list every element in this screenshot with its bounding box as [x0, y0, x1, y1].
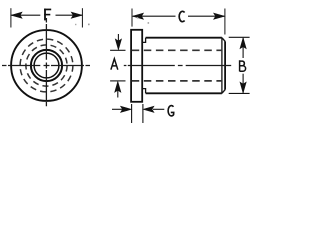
end face [224, 41, 226, 89]
body top edge [146, 37, 222, 39]
bore hidden line top [132, 49, 222, 51]
C extension line right [224, 9, 226, 35]
F arrow right [71, 12, 82, 18]
B extension line top [229, 36, 250, 38]
label F [44, 9, 51, 21]
F extension line right [81, 8, 83, 27]
centerline horizontal [2, 65, 90, 67]
hidden circle body OD [20, 39, 73, 92]
body bottom edge [146, 92, 222, 94]
A extension line top [110, 49, 125, 51]
label A [111, 59, 118, 70]
C arrow right [214, 13, 225, 19]
A arrow bottom (up) [117, 91, 119, 98]
scan specks [88, 24, 90, 26]
bore inner circle [34, 53, 59, 78]
F extension line left [10, 8, 12, 27]
side view centerline [124, 65, 231, 67]
flange rectangle [131, 30, 142, 102]
C dimension line left segment [133, 15, 176, 17]
A arrow top (down) [117, 34, 119, 41]
G arrow right (points left) [153, 108, 164, 110]
chamfer diagonal top [222, 38, 225, 42]
F dimension line right segment [56, 14, 82, 16]
label C [179, 11, 184, 21]
G extension line right [142, 104, 144, 123]
label B [240, 60, 246, 71]
centerline vertical [45, 18, 47, 106]
bore outer circle [31, 50, 62, 81]
B dimension line bottom segment (down arrow) [242, 74, 244, 93]
undercut notch top [142, 38, 145, 43]
B extension line bottom [229, 92, 250, 94]
chamfer diagonal bottom [222, 90, 225, 94]
C arrow left [133, 13, 144, 19]
F dimension line left segment [11, 14, 40, 16]
hidden circle undercut [26, 45, 67, 86]
G extension line left [131, 104, 133, 123]
flange outer circle [11, 30, 82, 101]
label G [168, 106, 174, 116]
chamfer tangent line [221, 38, 223, 94]
bore hidden line bottom [132, 80, 222, 82]
C dimension line right segment [188, 15, 224, 17]
C extension line left [131, 9, 133, 27]
undercut notch bottom [142, 89, 145, 94]
F arrow left [11, 12, 22, 18]
G arrow left (points right) [112, 108, 123, 110]
A extension line bottom [110, 80, 125, 82]
B dimension line top segment (up arrow) [242, 38, 244, 58]
